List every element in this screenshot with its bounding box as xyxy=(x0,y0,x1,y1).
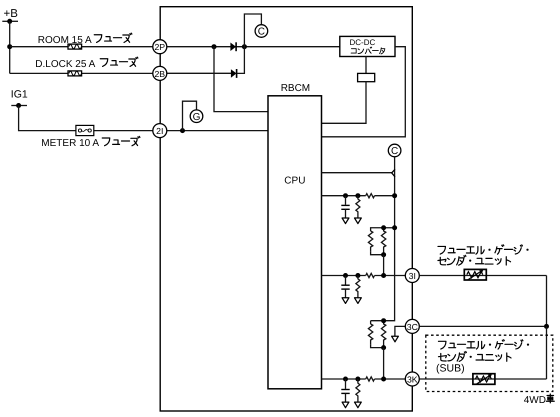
label fuel gauge sender unit SUB xyxy=(436,340,529,375)
ground row C resistor xyxy=(355,402,362,408)
node junction diode output xyxy=(242,44,247,49)
capacitor row B xyxy=(341,276,349,298)
wire 3I to fuel sender xyxy=(419,275,546,277)
wire filter to RBCM xyxy=(322,82,367,124)
svg-text:IG1: IG1 xyxy=(11,89,28,101)
node row B right xyxy=(381,273,386,278)
svg-text:D.LOCK 25 A: D.LOCK 25 A xyxy=(35,59,95,70)
ground row A capacitor xyxy=(342,218,349,224)
wire 2P row inside box xyxy=(160,46,340,48)
svg-text:2I: 2I xyxy=(156,126,163,136)
ground row C capacitor xyxy=(342,402,349,408)
wire ROOM fuse row xyxy=(10,46,160,48)
node pair1 bottom xyxy=(381,252,386,257)
wire bracket to connector G xyxy=(183,101,197,130)
wire 2B row xyxy=(160,72,231,74)
label fuel gauge sender unit xyxy=(438,245,529,265)
connector 3C xyxy=(405,319,419,333)
node row A left xyxy=(343,193,348,198)
fuse ROOM 15A xyxy=(68,44,82,49)
node junction below 2P xyxy=(212,44,217,49)
resistor row A horizontal xyxy=(366,194,375,198)
svg-text:2P: 2P xyxy=(154,42,165,52)
outer box MODULE xyxy=(160,7,412,411)
svg-text:METER 10 A: METER 10 A xyxy=(41,138,99,149)
node IG1 xyxy=(11,89,28,109)
connector G xyxy=(190,110,203,123)
wire DC-DC right output xyxy=(322,47,406,137)
wire diode D2 output up to node xyxy=(237,47,245,74)
wire pair1 to row B xyxy=(383,255,385,276)
resistor row B vertical xyxy=(356,276,360,298)
label ROOM 15 A fuse xyxy=(38,33,132,46)
node junction senders xyxy=(544,324,549,329)
svg-text:+B: +B xyxy=(4,8,19,20)
wire bracket to connector C1 xyxy=(244,14,261,47)
wire sender to junction xyxy=(546,276,548,327)
wire DC-DC bottom xyxy=(365,57,367,74)
svg-text:ROOM 15 A: ROOM 15 A xyxy=(38,35,92,46)
connector 3I xyxy=(405,269,419,283)
connector 2P xyxy=(153,40,167,54)
node row A mid xyxy=(355,193,360,198)
connector C2 xyxy=(388,144,401,157)
fuse METER 10A xyxy=(76,125,94,135)
wire C2 vertical run xyxy=(371,157,395,320)
svg-text:DC-DC: DC-DC xyxy=(350,38,376,47)
node row C mid xyxy=(355,377,360,382)
node row C right xyxy=(381,377,386,382)
node pair2 bottom xyxy=(381,345,386,350)
svg-text:3K: 3K xyxy=(407,375,418,385)
node +B xyxy=(2,8,18,24)
svg-text:G: G xyxy=(193,112,201,123)
node row B mid xyxy=(355,273,360,278)
node junction 2I row xyxy=(180,128,185,133)
wire IG1 to METER fuse xyxy=(19,106,160,131)
wire 2I row xyxy=(160,130,268,132)
resistor pair 1 xyxy=(368,228,394,255)
svg-text:C: C xyxy=(258,27,265,38)
wire 3K to SUB sender xyxy=(419,378,546,380)
wire junction down to SUB sender xyxy=(546,326,548,379)
wire junction down to RBCM xyxy=(214,47,268,112)
DC-DC converter box xyxy=(340,36,395,56)
resistor row C vertical xyxy=(356,379,360,402)
node pair1 top right xyxy=(392,225,397,230)
svg-text:(SUB): (SUB) xyxy=(436,363,465,375)
ground row B capacitor xyxy=(342,298,349,304)
svg-text:RBCM: RBCM xyxy=(281,83,310,94)
label METER 10 A fuse xyxy=(41,136,140,149)
node junction +B branch xyxy=(7,44,12,49)
resistor pair 2 xyxy=(368,321,385,348)
fuel gauge sender unit xyxy=(464,269,486,280)
diode D2 xyxy=(231,69,237,78)
wire pair2 to row C xyxy=(383,348,385,379)
wire 3C row xyxy=(419,325,546,327)
RBCM box xyxy=(268,83,322,389)
wire row B xyxy=(322,275,366,277)
connector 2I xyxy=(153,124,167,138)
wire D.LOCK fuse row xyxy=(10,72,231,74)
label D.LOCK 25 A fuse xyxy=(35,57,138,70)
svg-text:CPU: CPU xyxy=(284,175,305,186)
resistor row A vertical xyxy=(356,196,360,218)
svg-text:3I: 3I xyxy=(409,271,416,281)
wire RBCM to C2 with arrow xyxy=(322,169,396,177)
ground row A resistor xyxy=(355,218,362,224)
dashed box 4WD xyxy=(426,335,553,391)
node row A right xyxy=(392,193,397,198)
wire row B right to 3I xyxy=(375,275,407,277)
wire +B vertical xyxy=(9,21,11,73)
connector 2B xyxy=(153,66,167,80)
resistor row B horizontal xyxy=(366,273,375,277)
ground row B resistor xyxy=(355,298,362,304)
fuel gauge sender unit SUB xyxy=(473,374,495,385)
svg-text:C: C xyxy=(391,146,398,157)
label 4WD xyxy=(524,394,555,406)
connector C1 xyxy=(255,25,268,38)
resistor row C horizontal xyxy=(366,377,375,381)
capacitor row A xyxy=(341,196,349,218)
fuse D.LOCK 25A xyxy=(68,71,82,76)
capacitor row C xyxy=(341,379,349,402)
svg-text:3C: 3C xyxy=(407,322,418,332)
wire 3C to down arrow xyxy=(392,326,406,341)
diode D1 xyxy=(230,42,236,51)
wire row C xyxy=(322,378,366,380)
svg-text:4WD: 4WD xyxy=(524,395,546,406)
component filter box under DC-DC xyxy=(358,73,375,81)
wire row A right xyxy=(375,195,395,197)
node row C left xyxy=(343,377,348,382)
wire row C right to 3K xyxy=(375,378,407,380)
node pair2 top xyxy=(381,318,386,323)
node row B left xyxy=(343,273,348,278)
connector 3K xyxy=(405,372,419,386)
wire row A xyxy=(322,195,366,197)
svg-text:2B: 2B xyxy=(154,69,165,79)
node pair1 top left xyxy=(381,225,386,230)
